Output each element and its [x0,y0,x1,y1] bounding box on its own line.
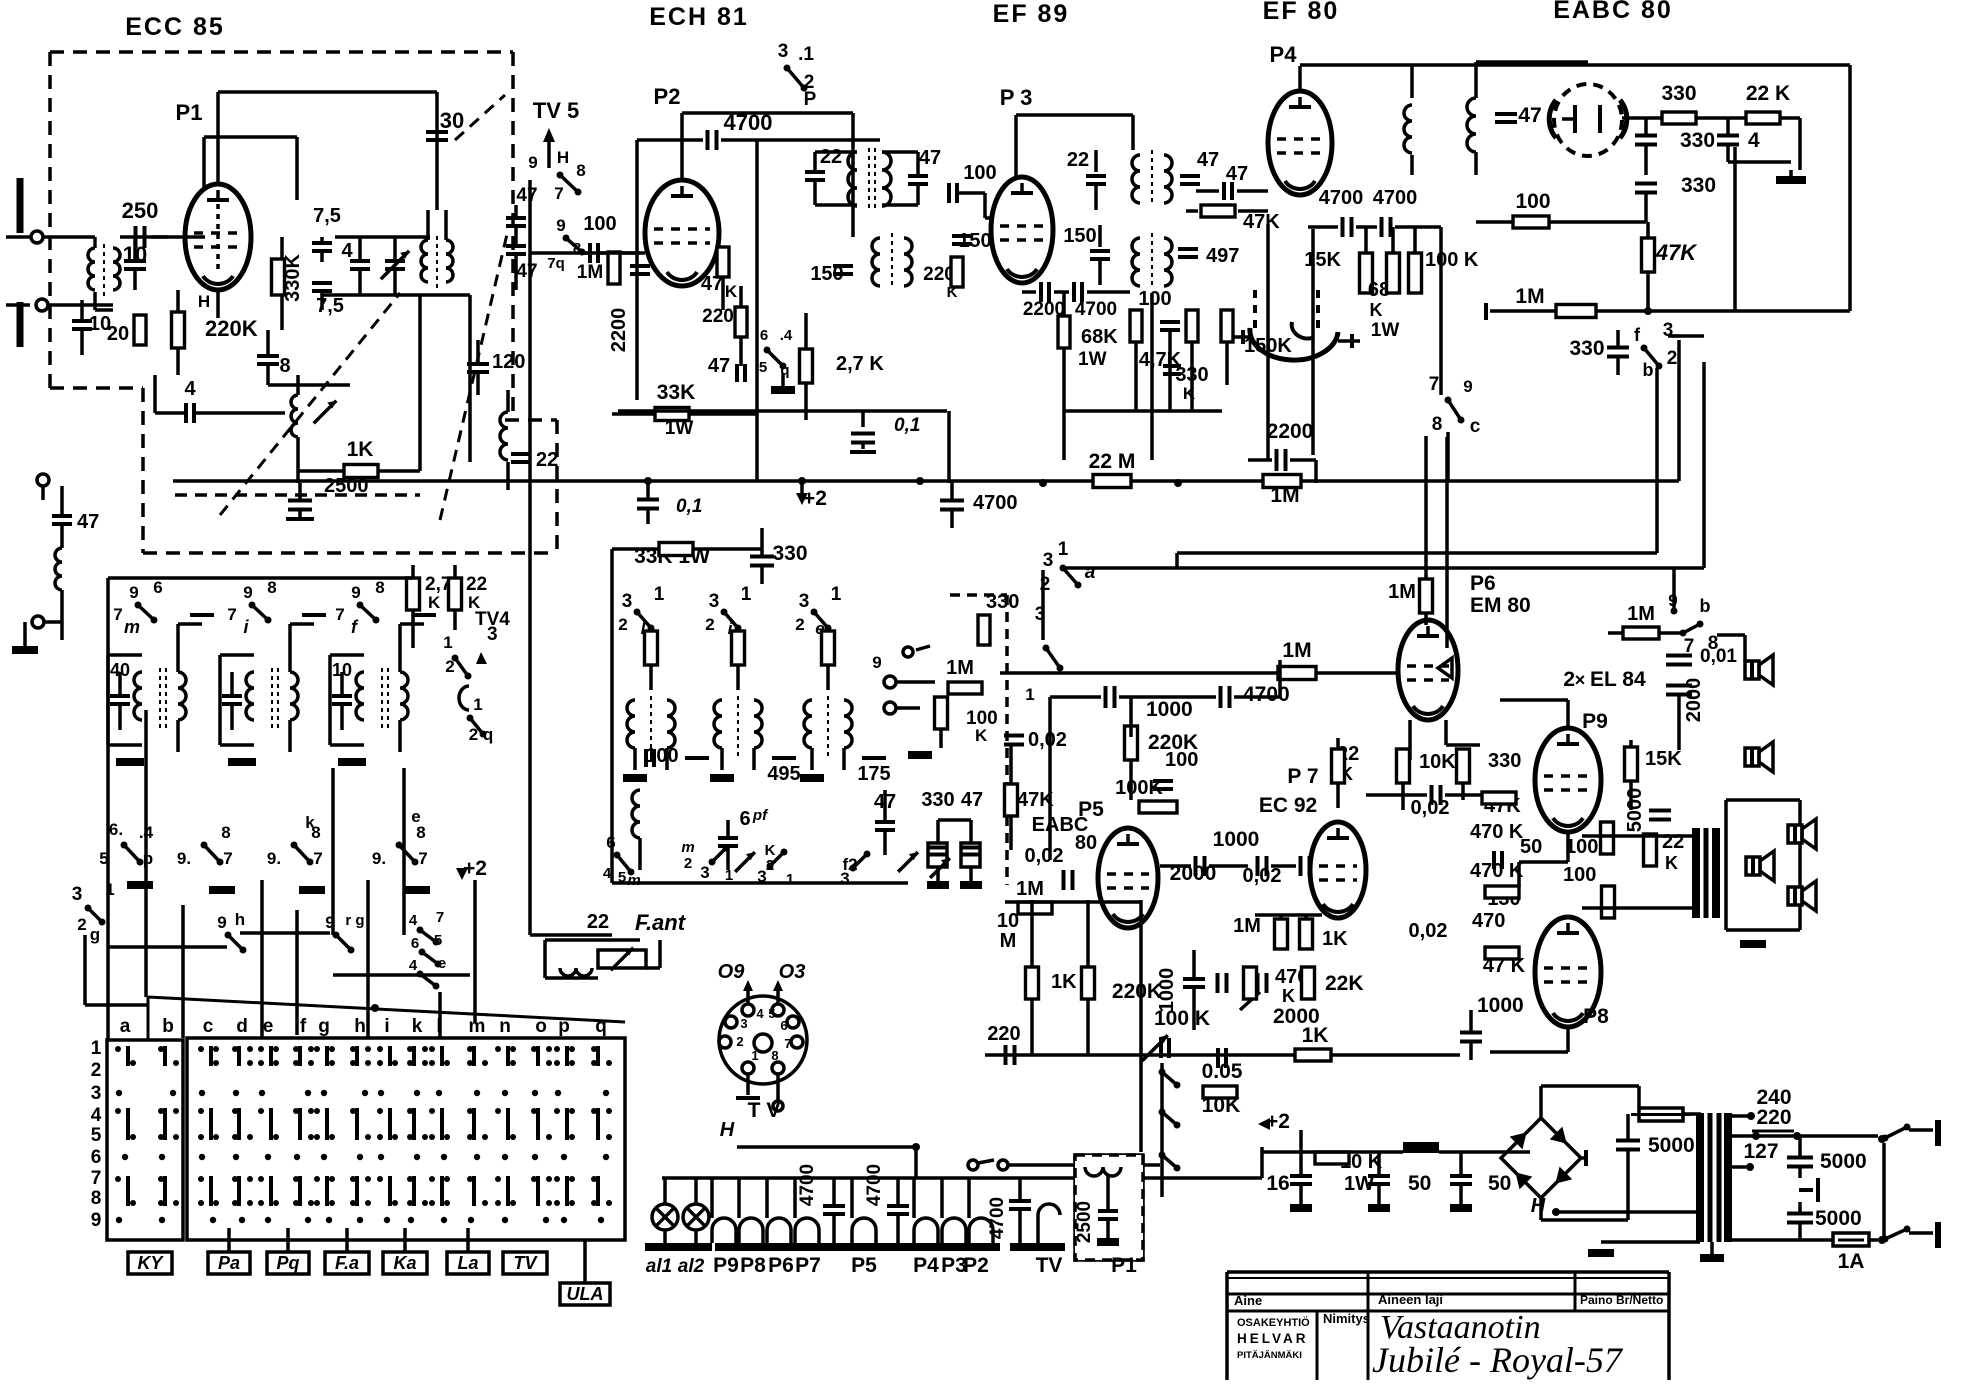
svg-text:9: 9 [1463,377,1472,396]
svg-text:8: 8 [267,578,276,597]
svg-text:1M: 1M [946,657,974,679]
svg-text:50: 50 [1488,1172,1511,1195]
svg-text:P4: P4 [1270,42,1298,67]
svg-text:3: 3 [1043,550,1054,571]
svg-text:3: 3 [799,591,810,612]
svg-text:2: 2 [91,1060,102,1081]
svg-text:50: 50 [1408,1172,1431,1195]
svg-text:P7: P7 [795,1254,821,1277]
svg-text:Nimitys: Nimitys [1323,1311,1370,1326]
svg-text:EF 80: EF 80 [1263,0,1340,25]
svg-text:1M: 1M [1282,639,1311,662]
svg-text:4: 4 [341,240,353,262]
svg-text:100: 100 [1565,836,1598,858]
svg-text:8: 8 [771,1048,778,1063]
svg-text:1000: 1000 [1156,968,1178,1013]
svg-text:220: 220 [987,1023,1020,1045]
svg-text:EM 80: EM 80 [1470,594,1531,617]
svg-text:KY: KY [137,1253,164,1273]
svg-text:10: 10 [997,910,1019,932]
svg-text:ECH 81: ECH 81 [649,3,749,31]
svg-text:1: 1 [831,584,842,605]
svg-text:100: 100 [963,162,996,184]
svg-text:9: 9 [217,913,226,932]
svg-text:1K: 1K [1322,928,1348,950]
svg-text:22 M: 22 M [1089,450,1136,473]
svg-text:0,1: 0,1 [676,496,702,517]
svg-text:T V: T V [748,1099,781,1122]
svg-text:3: 3 [840,869,849,888]
svg-text:1K: 1K [1051,971,1077,993]
svg-text:5: 5 [91,1125,102,1146]
svg-text:H: H [720,1119,735,1141]
svg-text:HELVAR: HELVAR [1237,1331,1309,1346]
svg-text:15K: 15K [1645,748,1682,770]
svg-text:47: 47 [516,185,537,206]
svg-text:P2: P2 [654,84,681,109]
svg-text:30: 30 [440,108,464,133]
svg-text:+2: +2 [803,487,827,510]
svg-text:7: 7 [223,849,232,868]
svg-text:H: H [557,148,569,167]
svg-text:H: H [198,292,210,311]
svg-text:2: 2 [705,615,714,634]
svg-text:47K: 47K [1655,240,1698,265]
svg-text:q: q [595,1016,607,1037]
svg-text:330: 330 [1661,82,1696,105]
svg-text:7q: 7q [547,255,565,272]
svg-text:3: 3 [622,591,633,612]
svg-text:100: 100 [1515,190,1550,213]
svg-text:K: K [725,282,738,301]
svg-text:P6: P6 [1470,572,1496,595]
svg-text:100 K: 100 K [1425,249,1479,271]
svg-text:K: K [975,726,988,745]
svg-text:220K: 220K [205,316,258,341]
svg-text:Jubilé - Royal-57: Jubilé - Royal-57 [1372,1340,1624,1380]
svg-text:m: m [627,872,640,889]
svg-text:K: K [428,593,441,612]
svg-text:k: k [305,813,315,832]
svg-text:80: 80 [1075,832,1097,854]
svg-text:4700: 4700 [987,1197,1008,1239]
svg-text:K: K [947,284,958,301]
svg-text:330: 330 [1569,337,1604,360]
svg-text:9: 9 [351,583,360,602]
svg-text:47K: 47K [1243,211,1280,233]
svg-text:EL 84: EL 84 [1590,668,1646,691]
svg-text:4700: 4700 [1243,683,1290,706]
svg-text:k: k [412,1016,423,1037]
svg-text:9: 9 [556,216,565,235]
svg-text:3: 3 [72,884,83,905]
svg-text:10: 10 [332,660,352,680]
svg-text:127: 127 [1743,1140,1778,1163]
svg-text:5000: 5000 [1648,1134,1695,1157]
svg-text:e: e [411,807,420,826]
svg-text:6: 6 [91,1147,102,1168]
svg-text:g: g [90,925,100,944]
svg-text:EC 92: EC 92 [1259,794,1317,817]
svg-text:Aineen laji: Aineen laji [1378,1292,1443,1307]
svg-text:Aine: Aine [1234,1293,1262,1308]
svg-text:P 7: P 7 [1287,765,1318,788]
svg-text:P: P [804,89,817,110]
svg-text:6: 6 [760,327,768,344]
svg-text:f: f [1634,325,1641,345]
svg-text:3: 3 [709,591,720,612]
svg-text:100: 100 [1165,749,1198,771]
svg-text:330: 330 [1681,174,1716,197]
svg-text:1W: 1W [665,418,694,439]
svg-text:c: c [1470,416,1481,437]
svg-text:K: K [1282,986,1295,1006]
svg-text:.4: .4 [780,327,793,344]
svg-text:22: 22 [587,911,609,933]
svg-text:K: K [1665,853,1678,873]
svg-text:5: 5 [768,1006,775,1021]
svg-text:4: 4 [184,378,196,400]
svg-text:2: 2 [684,855,692,872]
svg-text:O3: O3 [779,961,806,983]
svg-text:P5: P5 [851,1254,877,1277]
svg-text:1M: 1M [1627,603,1655,625]
svg-text:7,5: 7,5 [313,205,341,227]
svg-text:8: 8 [279,355,290,377]
svg-text:P1: P1 [1111,1254,1137,1277]
svg-text:1W: 1W [1078,349,1107,370]
svg-text:F.ant: F.ant [635,910,687,935]
svg-text:175: 175 [857,763,890,785]
svg-text:1: 1 [473,695,482,714]
svg-text:47: 47 [708,355,730,377]
svg-text:120: 120 [492,351,525,373]
svg-text:5000: 5000 [1624,788,1646,833]
svg-text:470 K: 470 K [1470,860,1524,882]
svg-text:330: 330 [1680,129,1715,152]
svg-text:EF 89: EF 89 [993,0,1070,28]
svg-text:1: 1 [91,1038,102,1059]
svg-text:7: 7 [784,1036,791,1051]
svg-text:K: K [1370,300,1383,320]
svg-text:1: 1 [443,633,452,652]
svg-text:Paino Br/Netto: Paino Br/Netto [1580,1293,1663,1307]
svg-text:3: 3 [1035,604,1046,625]
svg-text:495: 495 [767,763,800,785]
svg-text:22: 22 [536,449,558,471]
svg-text:1: 1 [741,584,752,605]
svg-text:Pa: Pa [218,1253,240,1273]
svg-text:e: e [263,1016,274,1037]
svg-text:250: 250 [122,198,159,223]
svg-text:2: 2 [795,615,804,634]
svg-text:2500: 2500 [1074,1201,1095,1243]
svg-text:68K: 68K [1081,326,1118,348]
svg-text:1: 1 [751,1048,758,1063]
svg-text:n: n [499,1016,511,1037]
svg-text:d: d [236,1016,248,1037]
svg-text:1M: 1M [1233,915,1261,937]
svg-text:i: i [384,1016,389,1037]
svg-text:1: 1 [1058,539,1069,560]
svg-text:a: a [1085,562,1096,583]
svg-text:7: 7 [418,849,427,868]
svg-text:m: m [469,1016,486,1037]
svg-text:22: 22 [1067,149,1089,171]
svg-text:4: 4 [409,957,418,974]
svg-text:7: 7 [335,605,344,624]
svg-text:P9: P9 [1582,710,1608,733]
svg-text:b: b [162,1016,174,1037]
svg-text:9: 9 [243,583,252,602]
svg-text:100 K: 100 K [1154,1007,1210,1030]
svg-text:1: 1 [1025,685,1034,704]
svg-text:6: 6 [780,1018,787,1033]
svg-text:m: m [681,839,694,856]
svg-text:4: 4 [1748,129,1760,152]
svg-text:2: 2 [445,657,454,676]
svg-text:8: 8 [91,1188,102,1209]
svg-text:1W: 1W [1371,320,1400,341]
svg-text:al2: al2 [678,1256,705,1277]
svg-text:al1: al1 [646,1256,672,1277]
svg-text:330: 330 [986,591,1019,613]
svg-text:0,02: 0,02 [1025,845,1064,867]
svg-text:10K: 10K [1419,751,1456,773]
svg-text:3: 3 [1663,320,1674,341]
svg-text:M: M [1000,930,1017,952]
svg-text:0,1: 0,1 [894,415,920,436]
svg-text:4: 4 [409,912,418,929]
svg-text:7: 7 [1429,374,1440,395]
svg-text:O9: O9 [718,961,746,983]
svg-text:8: 8 [375,578,384,597]
svg-text:TV 5: TV 5 [533,98,579,123]
svg-text:5000: 5000 [1820,1150,1867,1173]
svg-text:8: 8 [221,823,230,842]
svg-text:470 K: 470 K [1470,821,1524,843]
svg-text:b: b [1643,360,1654,380]
svg-text:3: 3 [487,624,498,645]
svg-text:22: 22 [820,146,842,168]
svg-text:Pq: Pq [276,1253,299,1273]
svg-text:9: 9 [129,583,138,602]
svg-text:×: × [1575,670,1586,690]
svg-text:16: 16 [1266,1172,1289,1195]
svg-text:2: 2 [736,1034,743,1049]
svg-text:P8: P8 [1583,1005,1609,1028]
svg-text:6: 6 [411,935,419,952]
svg-text:b: b [1700,596,1711,616]
svg-text:5: 5 [759,359,767,376]
svg-text:2: 2 [77,915,86,934]
svg-text:100: 100 [1138,288,1171,310]
svg-text:3: 3 [91,1083,102,1104]
svg-text:47: 47 [1197,149,1219,171]
svg-text:9.: 9. [177,849,191,868]
svg-text:TV: TV [513,1253,538,1273]
svg-text:4700: 4700 [1075,299,1117,320]
svg-text:330: 330 [772,542,807,565]
svg-text:h: h [354,1016,366,1037]
svg-text:497: 497 [1206,245,1239,267]
svg-text:6.: 6. [109,820,123,839]
svg-text:47: 47 [961,789,983,811]
svg-text:9: 9 [91,1210,102,1231]
svg-text:P4: P4 [913,1254,939,1277]
svg-text:3: 3 [778,41,789,62]
svg-text:22K: 22K [1325,972,1364,995]
svg-text:100K: 100K [1115,777,1163,799]
svg-text:47: 47 [516,261,537,282]
svg-text:PITÄJÄNMÄKI: PITÄJÄNMÄKI [1237,1350,1302,1361]
svg-text:330: 330 [921,789,954,811]
svg-text:47: 47 [1226,163,1248,185]
svg-text:4700: 4700 [973,492,1018,514]
svg-text:1000: 1000 [1477,994,1524,1017]
svg-text:1K: 1K [1302,1024,1329,1047]
svg-text:h: h [235,910,245,929]
svg-text:20: 20 [107,323,129,345]
svg-text:50: 50 [1520,836,1542,858]
svg-text:1M: 1M [577,262,603,283]
svg-text:7: 7 [227,605,236,624]
svg-text:4700: 4700 [797,1164,818,1206]
svg-text:La: La [457,1253,478,1273]
svg-text:7: 7 [91,1168,102,1189]
svg-text:5000: 5000 [1815,1207,1862,1230]
svg-text:1K: 1K [347,438,374,461]
svg-text:330K: 330K [282,254,304,302]
svg-text:p: p [558,1016,570,1037]
svg-text:P2: P2 [963,1254,989,1277]
svg-text:1: 1 [786,871,794,888]
svg-text:K: K [1183,384,1196,403]
svg-text:o: o [535,1016,547,1037]
svg-text:9: 9 [872,653,881,672]
svg-text:OSAKEYHTIÖ: OSAKEYHTIÖ [1237,1316,1310,1329]
svg-text:4: 4 [756,1006,764,1021]
svg-text:8: 8 [1432,414,1443,435]
svg-text:47: 47 [919,147,941,169]
svg-text:4700: 4700 [864,1164,885,1206]
svg-text:22 K: 22 K [1746,82,1790,105]
svg-text:100: 100 [645,745,678,767]
svg-text:0.05: 0.05 [1202,1060,1243,1083]
svg-text:0,02: 0,02 [1028,729,1067,751]
svg-text:7: 7 [436,909,444,926]
svg-text:40: 40 [110,660,130,680]
svg-text:33K: 33K [657,381,696,404]
svg-text:ECC 85: ECC 85 [125,13,225,41]
svg-text:f: f [351,617,359,637]
svg-text:220: 220 [1756,1106,1791,1129]
svg-text:i: i [243,617,249,637]
svg-text:2 q: 2 q [469,725,494,744]
svg-text:6: 6 [739,808,750,830]
svg-text:4: 4 [91,1105,102,1126]
svg-text:1M: 1M [1388,581,1416,603]
svg-text:P1: P1 [176,100,203,125]
svg-text:6: 6 [153,578,162,597]
svg-text:F.a: F.a [335,1253,359,1273]
svg-text:P6: P6 [768,1254,794,1277]
svg-text:22: 22 [466,574,487,595]
svg-text:9.: 9. [267,849,281,868]
svg-text:2: 2 [1667,348,1678,369]
svg-text:TV: TV [1036,1254,1063,1277]
svg-text:5: 5 [434,932,442,949]
svg-text:pf: pf [752,807,769,824]
svg-text:c: c [203,1016,214,1037]
svg-text:P8: P8 [740,1254,766,1277]
svg-text:9.: 9. [372,849,386,868]
svg-text:Ka: Ka [393,1253,416,1273]
svg-text:r g: r g [345,912,364,929]
svg-text:m: m [124,617,140,637]
svg-text:P9: P9 [713,1254,739,1277]
svg-text:100: 100 [1563,864,1596,886]
svg-text:47K: 47K [1017,789,1054,811]
svg-text:15K: 15K [1304,249,1341,271]
svg-text:1000: 1000 [1213,828,1260,851]
svg-text:ULA: ULA [567,1284,604,1304]
svg-text:0,02: 0,02 [1409,920,1448,942]
svg-text:330: 330 [1488,750,1521,772]
svg-text:e: e [438,955,446,972]
svg-text:220K: 220K [1112,980,1162,1003]
svg-text:150: 150 [958,230,991,252]
svg-text:1: 1 [654,584,665,605]
svg-text:100: 100 [583,213,616,235]
svg-text:1A: 1A [1838,1250,1865,1273]
svg-text:47: 47 [1518,104,1541,127]
svg-text:2200: 2200 [1267,420,1314,443]
svg-text:g: g [318,1016,330,1037]
svg-text:EABC 80: EABC 80 [1553,0,1673,24]
svg-text:220: 220 [702,306,734,327]
svg-text:0,02: 0,02 [1243,865,1282,887]
svg-text:8: 8 [576,161,585,180]
svg-text:9: 9 [528,153,537,172]
svg-text:2200: 2200 [608,308,630,353]
svg-text:47: 47 [77,511,99,533]
svg-text:470: 470 [1472,910,1505,932]
svg-text:1M: 1M [1016,878,1044,900]
svg-text:1M: 1M [1515,285,1544,308]
svg-text:3: 3 [700,863,709,882]
svg-text:4700: 4700 [1319,187,1364,209]
svg-text:0,01: 0,01 [1700,646,1737,667]
svg-text:.1: .1 [798,44,814,65]
svg-text:4700: 4700 [1373,187,1418,209]
svg-text:7: 7 [554,184,563,203]
svg-text:1000: 1000 [1146,698,1193,721]
svg-text:H: H [1531,1195,1546,1217]
svg-text:2: 2 [1563,668,1575,691]
svg-text:2,7 K: 2,7 K [836,353,884,375]
svg-text:7: 7 [313,849,322,868]
svg-text:3: 3 [740,1016,747,1031]
svg-text:150: 150 [1063,225,1096,247]
svg-text:7: 7 [113,605,122,624]
svg-text:2: 2 [618,615,627,634]
svg-text:P 3: P 3 [1000,85,1033,110]
svg-text:a: a [120,1016,131,1037]
svg-text:f: f [300,1016,307,1037]
svg-text:4700: 4700 [724,110,773,135]
